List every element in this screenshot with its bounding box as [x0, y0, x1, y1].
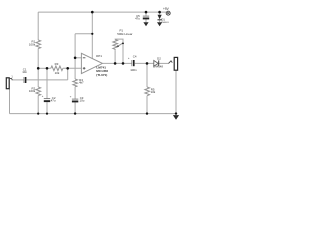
wire bias node to R3 — [38, 67, 51, 69]
wire R2 bottom to ground rail — [37, 96, 39, 114]
label C4 — [130, 55, 137, 72]
ground symbol below C5 — [143, 22, 148, 26]
svg-text:R3: R3 — [55, 62, 59, 66]
wire feedback horizontal — [75, 33, 92, 35]
svg-text:OP1: OP1 — [96, 54, 102, 58]
label C2 — [51, 96, 56, 103]
wire D1 branch from rail — [159, 12, 161, 15]
svg-text:1N4001: 1N4001 — [161, 22, 169, 24]
svg-text:10k: 10k — [55, 71, 60, 75]
junction node C2 ground — [46, 113, 48, 115]
junction node inverting input — [74, 57, 77, 60]
svg-text:+: + — [70, 95, 72, 99]
svg-text:100n: 100n — [130, 68, 137, 72]
label D2 — [153, 56, 163, 68]
potentiometer P1 zigzag — [113, 40, 118, 51]
op-amp plus symbol — [83, 67, 86, 70]
wire R1 bottom to bias node — [37, 49, 39, 69]
capacitor C2 plates — [44, 99, 50, 103]
wire C2 bottom to ground rail — [46, 102, 48, 114]
svg-text:1: 1 — [11, 75, 13, 78]
junction node R2 ground — [37, 113, 39, 115]
potentiometer P1 wiper line — [117, 43, 123, 47]
wire down to inverting input node — [74, 34, 76, 58]
junction node pot bottom on output — [114, 62, 117, 65]
wire input jack sleeve down — [9, 89, 11, 114]
junction node wiper tie — [122, 43, 124, 45]
wire D1 cathode to ground symbol — [159, 20, 161, 22]
junction node D1 on rail — [158, 11, 161, 14]
junction node bias divider — [37, 67, 40, 70]
svg-text:10u: 10u — [80, 99, 85, 103]
diode D1 — [158, 15, 162, 20]
svg-text:+: + — [42, 94, 44, 98]
svg-text:C4: C4 — [133, 55, 137, 59]
junction node R5 ground — [146, 112, 148, 114]
input jack J1 — [6, 78, 12, 89]
label P1 — [117, 28, 132, 36]
svg-text:10n: 10n — [22, 70, 27, 74]
resistor R1 — [36, 40, 41, 49]
svg-text:47u: 47u — [135, 17, 140, 21]
wire top supply rail — [38, 11, 166, 13]
label R4 — [79, 78, 84, 85]
label R3 — [55, 62, 60, 75]
output jack J2 — [169, 57, 178, 70]
resistor R5 — [145, 87, 150, 96]
+9V terminal circle — [166, 11, 170, 15]
wire C3 bottom to ground rail — [74, 102, 76, 113]
junction node power pin on rail — [91, 11, 94, 14]
label R1 — [29, 40, 36, 47]
junction node C3 ground — [74, 112, 76, 114]
wire pot top terminal bracket — [115, 39, 123, 63]
wire C1 to signal riser — [26, 79, 67, 81]
wire inverting node down to R4 — [74, 58, 76, 79]
resistor R2 — [36, 87, 41, 96]
op-amp OP1 triangle — [81, 53, 102, 73]
ground symbol bottom right — [173, 115, 179, 120]
ground symbol below D1 — [157, 22, 162, 26]
svg-text:+9V: +9V — [163, 7, 170, 11]
svg-text:100k: 100k — [29, 89, 36, 93]
junction node pot bracket on output — [122, 62, 125, 65]
svg-text:(TL071): (TL071) — [96, 73, 107, 77]
junction node C2 tap — [46, 67, 49, 70]
wire input jack tip to C1 — [12, 79, 23, 81]
wire C2 branch down — [46, 68, 48, 98]
junction node op-amp +input — [66, 67, 69, 70]
wire rail corner down to R1 — [37, 12, 39, 40]
wire C4 to D2 — [135, 62, 154, 64]
svg-text:4k7: 4k7 — [79, 81, 84, 85]
resistor R4 — [73, 79, 78, 87]
svg-text:100k: 100k — [29, 42, 36, 46]
wire signal riser up to input node — [67, 68, 69, 80]
label D1 — [161, 17, 169, 24]
capacitor C4 plates — [132, 60, 135, 66]
junction node C5 on rail — [145, 11, 148, 14]
wire op-amp output — [102, 62, 131, 64]
label R2 — [29, 86, 36, 93]
junction node R5 tap — [146, 62, 149, 65]
diode D2 — [154, 60, 159, 66]
wire output jack sleeve down — [175, 70, 177, 113]
wire bias node to R2 — [37, 68, 39, 87]
wire R3 to op-amp noninverting input — [63, 67, 82, 69]
svg-text:D2: D2 — [157, 56, 161, 60]
svg-text:10k: 10k — [151, 90, 156, 94]
capacitor C3 plates — [72, 99, 78, 102]
resistor R3 — [51, 66, 63, 71]
capacitor C1 plates — [24, 77, 26, 83]
label C1 — [22, 67, 27, 74]
wire R4 to C3 — [74, 87, 76, 99]
wire C5 bottom to ground symbol — [145, 19, 147, 22]
svg-text:1N4148: 1N4148 — [153, 64, 163, 68]
svg-text:+: + — [128, 56, 130, 60]
wire inverting input to triangle — [75, 57, 81, 59]
label R5 — [151, 87, 156, 94]
label C3 — [80, 96, 85, 103]
wire D2 cathode to output jack contact — [159, 62, 169, 64]
capacitor C5 plates — [143, 16, 149, 19]
label C5 — [135, 14, 140, 21]
svg-text:D1: D1 — [161, 17, 165, 21]
wire R5 bottom to ground rail — [146, 96, 148, 114]
junction node feedback corner — [91, 33, 93, 35]
wire ground rail — [10, 113, 177, 115]
svg-text:47u: 47u — [51, 99, 56, 103]
potentiometer wiper arrowhead — [116, 45, 119, 48]
wire supply rail to op-amp power pin — [91, 12, 93, 59]
wire pot bottom terminal to output line — [114, 50, 116, 63]
label op-amp type alternatives — [96, 65, 108, 77]
wire output node down to R5 — [146, 63, 148, 87]
op-amp minus symbol — [83, 57, 86, 59]
junction node jack sleeve ground — [175, 112, 177, 114]
svg-text:500k Linear: 500k Linear — [117, 32, 132, 36]
wire C5 branch from rail — [145, 12, 147, 16]
